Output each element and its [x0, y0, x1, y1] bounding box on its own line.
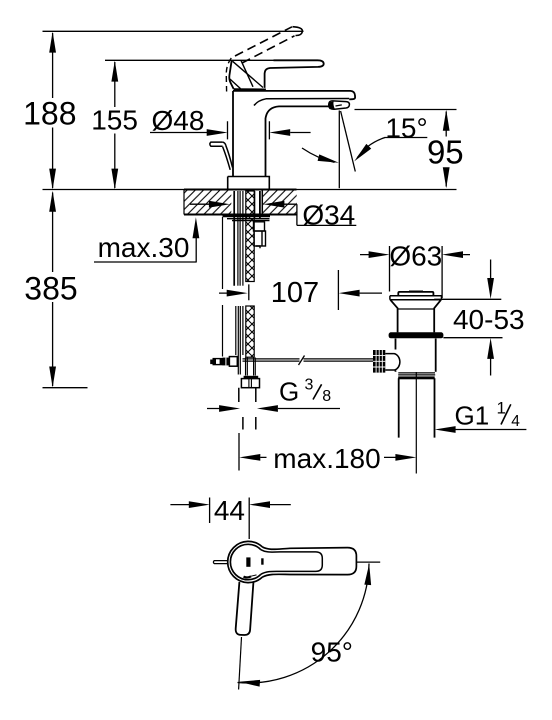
svg-text:95°: 95°: [311, 637, 353, 668]
svg-text:15°: 15°: [385, 113, 427, 144]
svg-text:188: 188: [23, 95, 76, 131]
svg-text:4: 4: [511, 413, 520, 430]
svg-text:44: 44: [214, 495, 245, 526]
svg-text:Ø48: Ø48: [152, 105, 205, 136]
svg-text:3: 3: [305, 377, 314, 394]
svg-text:385: 385: [24, 271, 77, 307]
svg-text:G1: G1: [455, 401, 490, 431]
svg-text:Ø63: Ø63: [389, 241, 442, 272]
svg-text:95: 95: [427, 134, 464, 171]
svg-text:max.30: max.30: [98, 232, 190, 263]
svg-text:max.180: max.180: [273, 443, 380, 474]
svg-text:107: 107: [271, 277, 319, 309]
svg-text:155: 155: [91, 105, 138, 136]
svg-text:1: 1: [497, 399, 506, 418]
svg-text:8: 8: [322, 388, 331, 405]
svg-text:G: G: [279, 377, 299, 407]
svg-text:Ø34: Ø34: [302, 199, 355, 230]
svg-text:40-53: 40-53: [453, 304, 525, 335]
